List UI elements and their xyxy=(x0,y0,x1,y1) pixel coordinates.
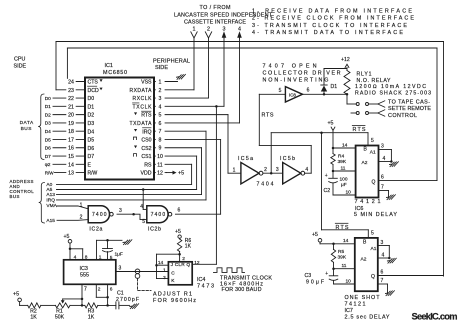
svg-text:3: 3 xyxy=(381,143,384,149)
svg-text:CTS: CTS xyxy=(88,80,99,86)
svg-text:5: 5 xyxy=(371,230,374,236)
svg-text:18: 18 xyxy=(68,129,74,135)
svg-text:21: 21 xyxy=(68,104,74,110)
svg-text:μF: μF xyxy=(341,182,347,188)
svg-text:50K: 50K xyxy=(55,315,65,321)
svg-text:A2: A2 xyxy=(361,256,367,262)
svg-text:14: 14 xyxy=(158,260,164,266)
svg-text:3- TRANSMIT CLOCK TO INTERFACE: 3- TRANSMIT CLOCK TO INTERFACE xyxy=(252,23,407,29)
svg-text:6: 6 xyxy=(307,88,310,94)
svg-text:2: 2 xyxy=(207,27,210,33)
svg-text:RS: RS xyxy=(144,162,152,168)
svg-text:4: 4 xyxy=(74,254,77,260)
svg-text:24: 24 xyxy=(68,80,74,86)
svg-text:D1: D1 xyxy=(88,104,95,110)
svg-text:4: 4 xyxy=(159,104,162,110)
svg-text:2: 2 xyxy=(98,287,101,293)
svg-text:3: 3 xyxy=(119,265,122,271)
svg-text:D7: D7 xyxy=(88,154,95,160)
svg-text:IC1: IC1 xyxy=(105,63,113,69)
svg-text:CONTROL: CONTROL xyxy=(388,113,417,119)
svg-text:1: 1 xyxy=(233,168,236,174)
svg-text:+12: +12 xyxy=(341,57,350,63)
svg-text:IC6: IC6 xyxy=(355,206,363,212)
svg-text:1μF: 1μF xyxy=(115,251,123,257)
svg-text:13: 13 xyxy=(68,171,74,177)
svg-text:VMA: VMA xyxy=(46,203,57,209)
svg-text:1: 1 xyxy=(159,80,162,86)
svg-text:D0: D0 xyxy=(45,96,51,102)
svg-text:14: 14 xyxy=(342,142,348,148)
svg-text:RTS: RTS xyxy=(353,127,366,133)
svg-text:C2: C2 xyxy=(324,188,331,194)
svg-text:R/W: R/W xyxy=(88,171,98,177)
svg-text:IC3: IC3 xyxy=(80,266,88,272)
svg-text:39K: 39K xyxy=(338,159,347,165)
svg-text:10: 10 xyxy=(346,279,352,285)
svg-text:1: 1 xyxy=(80,203,83,209)
svg-text:23: 23 xyxy=(68,88,74,94)
svg-text:7: 7 xyxy=(381,185,384,191)
svg-text:19: 19 xyxy=(68,121,74,127)
svg-text:+5: +5 xyxy=(64,234,70,240)
svg-text:5: 5 xyxy=(371,138,374,144)
svg-text:RTS: RTS xyxy=(336,225,349,231)
svg-text:1K: 1K xyxy=(30,315,37,321)
svg-text:TO / FROM: TO / FROM xyxy=(200,5,232,11)
svg-text:1K: 1K xyxy=(185,243,192,249)
svg-text:R4: R4 xyxy=(338,154,344,160)
svg-text:555: 555 xyxy=(80,273,89,279)
svg-text:3: 3 xyxy=(223,27,226,33)
svg-text:SIDE: SIDE xyxy=(14,64,27,70)
svg-text:1: 1 xyxy=(99,254,102,260)
svg-text:IC5b: IC5b xyxy=(280,156,295,162)
svg-text:8: 8 xyxy=(85,254,88,260)
svg-text:IC5a: IC5a xyxy=(238,156,253,162)
svg-text:Q: Q xyxy=(371,274,375,280)
svg-text:FOR 9600Hz: FOR 9600Hz xyxy=(153,298,196,304)
svg-text:8: 8 xyxy=(159,137,162,143)
svg-text:4: 4 xyxy=(382,252,385,258)
svg-text:CS2: CS2 xyxy=(141,146,151,152)
svg-text:TXDATA: TXDATA xyxy=(130,121,153,127)
svg-text:2: 2 xyxy=(159,88,162,94)
svg-text:22: 22 xyxy=(68,96,74,102)
svg-text:DATA: DATA xyxy=(20,120,34,126)
svg-text:39K: 39K xyxy=(338,255,347,261)
svg-text:6: 6 xyxy=(159,121,162,127)
svg-text:D7: D7 xyxy=(45,154,51,160)
svg-text:IC7: IC7 xyxy=(345,308,353,314)
svg-text:3: 3 xyxy=(163,275,166,281)
svg-text:11: 11 xyxy=(157,162,162,168)
svg-text:ADJUST R1: ADJUST R1 xyxy=(153,291,192,297)
svg-text:IRQ: IRQ xyxy=(46,198,55,204)
svg-text:7473: 7473 xyxy=(197,284,214,290)
svg-text:E: E xyxy=(88,162,92,168)
svg-text:SIDE: SIDE xyxy=(155,65,168,71)
svg-text:D3: D3 xyxy=(88,121,95,127)
svg-text:IC2b: IC2b xyxy=(148,226,161,232)
svg-text:15: 15 xyxy=(68,154,74,160)
svg-text:TXCLK: TXCLK xyxy=(133,104,153,110)
svg-text:SETTE REMOTE: SETTE REMOTE xyxy=(388,106,431,112)
svg-text:RTS: RTS xyxy=(262,113,274,119)
svg-text:RTS: RTS xyxy=(141,113,152,119)
svg-text:100: 100 xyxy=(340,177,348,183)
svg-text:5: 5 xyxy=(279,88,282,94)
svg-text:6: 6 xyxy=(381,174,384,180)
svg-text:A2: A2 xyxy=(362,160,368,166)
svg-text:+5: +5 xyxy=(175,229,181,235)
svg-text:NON-INVERTING: NON-INVERTING xyxy=(263,78,329,84)
svg-text:IC4: IC4 xyxy=(197,277,205,283)
svg-text:7404: 7404 xyxy=(257,182,274,188)
svg-text:3: 3 xyxy=(159,96,162,102)
svg-text:6: 6 xyxy=(381,269,384,275)
svg-text:10: 10 xyxy=(157,154,163,160)
svg-text:7: 7 xyxy=(84,286,87,292)
svg-text:17: 17 xyxy=(68,137,74,143)
svg-text:2: 2 xyxy=(80,214,83,220)
svg-text:A13: A13 xyxy=(46,192,55,198)
svg-text:MC6850: MC6850 xyxy=(103,70,127,76)
svg-text:2700pF: 2700pF xyxy=(116,297,139,303)
svg-text:6: 6 xyxy=(110,287,113,293)
svg-text:3: 3 xyxy=(381,240,384,246)
svg-text:10: 10 xyxy=(346,190,352,196)
svg-text:D1: D1 xyxy=(45,104,51,110)
svg-text:FOR 300 BAUD: FOR 300 BAUD xyxy=(222,287,262,293)
svg-text:7: 7 xyxy=(381,278,384,284)
svg-text:D2: D2 xyxy=(88,113,95,119)
svg-text:6: 6 xyxy=(178,208,181,214)
svg-text:D3: D3 xyxy=(45,121,51,127)
svg-text:D0: D0 xyxy=(88,96,95,102)
svg-text:C3: C3 xyxy=(305,273,312,279)
svg-text:3: 3 xyxy=(276,167,279,173)
svg-text:D1: D1 xyxy=(331,84,338,90)
svg-text:RXCLK: RXCLK xyxy=(133,96,153,102)
svg-text:TO TAPE CAS-: TO TAPE CAS- xyxy=(388,100,430,106)
svg-text:N.O. RELAY: N.O. RELAY xyxy=(357,78,392,84)
svg-text:CS0: CS0 xyxy=(141,138,151,144)
svg-text:SeekIC.com: SeekIC.com xyxy=(412,312,458,322)
svg-text:BUS: BUS xyxy=(21,126,32,132)
svg-text:RLY1: RLY1 xyxy=(357,72,372,78)
svg-text:1: 1 xyxy=(193,27,196,33)
svg-text:ONE SHOT: ONE SHOT xyxy=(345,295,381,301)
svg-text:R/W: R/W xyxy=(45,170,55,175)
svg-text:C: C xyxy=(171,271,175,277)
svg-text:IRQ: IRQ xyxy=(142,129,151,135)
svg-text:+5: +5 xyxy=(13,292,19,298)
svg-text:D6: D6 xyxy=(45,146,51,152)
svg-text:A1: A1 xyxy=(371,246,377,252)
svg-text:VDD: VDD xyxy=(141,171,152,177)
svg-text:5 MIN DELAY: 5 MIN DELAY xyxy=(354,212,397,218)
svg-text:D5: D5 xyxy=(45,137,51,143)
svg-text:4: 4 xyxy=(383,156,386,162)
svg-text:1K: 1K xyxy=(88,315,95,321)
svg-text:D5: D5 xyxy=(88,138,95,144)
svg-text:IC2a: IC2a xyxy=(89,227,102,233)
svg-text:BUS: BUS xyxy=(10,194,20,199)
svg-text:2: 2 xyxy=(264,167,267,173)
svg-text:90μF: 90μF xyxy=(306,280,324,286)
svg-text:4: 4 xyxy=(140,204,143,210)
svg-text:VSS: VSS xyxy=(141,80,152,86)
svg-text:7400: 7400 xyxy=(151,212,166,218)
svg-text:CPU: CPU xyxy=(14,57,25,63)
svg-text:CS1: CS1 xyxy=(141,154,151,160)
svg-text:+: + xyxy=(325,271,328,277)
svg-text:PERIPHERAL: PERIPHERAL xyxy=(153,59,190,65)
svg-text:A5: A5 xyxy=(46,187,52,193)
svg-text:4: 4 xyxy=(238,27,241,33)
svg-text:IC8: IC8 xyxy=(289,92,296,97)
svg-text:5: 5 xyxy=(142,219,145,225)
svg-text:R5: R5 xyxy=(338,249,344,255)
svg-text:+: + xyxy=(325,173,328,179)
svg-text:+5: +5 xyxy=(328,121,334,127)
svg-text:A15: A15 xyxy=(46,218,55,224)
svg-text:A0: A0 xyxy=(46,182,52,188)
svg-text:Q: Q xyxy=(372,179,376,185)
svg-text:11: 11 xyxy=(342,263,347,269)
svg-text:20: 20 xyxy=(68,113,74,119)
svg-text:D4: D4 xyxy=(88,129,95,135)
svg-text:D6: D6 xyxy=(88,146,95,152)
svg-text:+5: +5 xyxy=(178,171,184,177)
svg-text:DCD: DCD xyxy=(88,88,99,94)
svg-text:5: 5 xyxy=(159,113,162,119)
svg-text:14: 14 xyxy=(68,162,74,168)
svg-text:D2: D2 xyxy=(45,112,51,118)
svg-text:C1: C1 xyxy=(117,291,124,297)
svg-text:11: 11 xyxy=(341,165,346,171)
svg-text:RXDATA: RXDATA xyxy=(130,88,153,94)
svg-text:5: 5 xyxy=(110,255,113,261)
svg-text:12: 12 xyxy=(194,260,200,266)
svg-text:2- RECEIVE CLOCK FROM INTERFAC: 2- RECEIVE CLOCK FROM INTERFACE xyxy=(252,16,414,22)
svg-text:7: 7 xyxy=(159,129,162,135)
svg-text:J CLR Q: J CLR Q xyxy=(171,262,191,268)
svg-text:A1: A1 xyxy=(370,150,376,156)
svg-text:14: 14 xyxy=(343,238,349,244)
svg-text:7400: 7400 xyxy=(92,212,107,218)
svg-text:CASSETTE INTERFACE: CASSETTE INTERFACE xyxy=(184,20,246,26)
svg-text:φ2: φ2 xyxy=(45,162,51,168)
svg-text:16: 16 xyxy=(68,146,74,152)
svg-text:12: 12 xyxy=(157,171,163,177)
svg-text:COLLECTOR DRIVER: COLLECTOR DRIVER xyxy=(263,71,341,77)
svg-text:9: 9 xyxy=(159,146,162,152)
svg-text:RADIO SHACK 275-003: RADIO SHACK 275-003 xyxy=(355,91,431,97)
svg-text:4: 4 xyxy=(305,167,308,173)
svg-text:2: 2 xyxy=(182,256,185,262)
svg-text:+5: +5 xyxy=(312,232,318,238)
svg-text:1: 1 xyxy=(163,268,166,274)
svg-text:D4: D4 xyxy=(45,129,51,135)
svg-text:3: 3 xyxy=(119,208,122,214)
svg-text:2.5 sec DELAY: 2.5 sec DELAY xyxy=(345,315,390,321)
